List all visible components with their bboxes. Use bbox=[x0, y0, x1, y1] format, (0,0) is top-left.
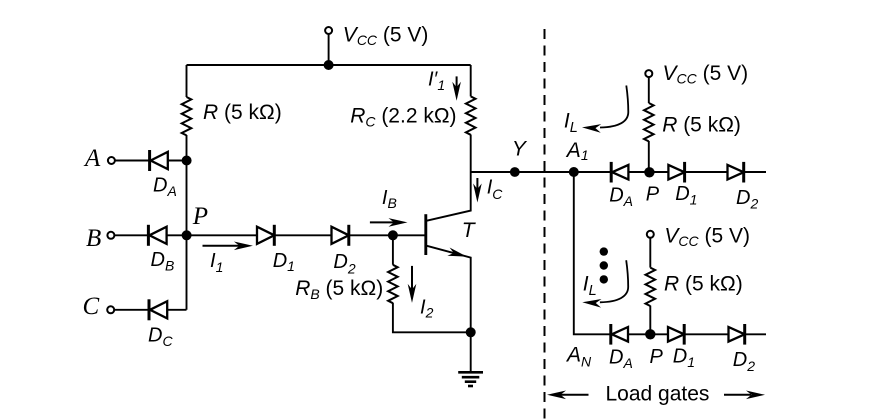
svg-text:D1: D1 bbox=[675, 183, 697, 207]
svg-text:D2: D2 bbox=[333, 251, 355, 277]
svg-text:P: P bbox=[192, 203, 208, 230]
svg-text:A1: A1 bbox=[565, 139, 589, 163]
svg-text:B: B bbox=[86, 225, 101, 252]
svg-text:IC: IC bbox=[487, 177, 504, 203]
svg-text:D2: D2 bbox=[733, 349, 755, 374]
svg-text:VCC (5 V): VCC (5 V) bbox=[664, 225, 750, 250]
svg-text:T: T bbox=[462, 219, 477, 242]
svg-text:A: A bbox=[83, 145, 101, 172]
svg-text:R (5 kΩ): R (5 kΩ) bbox=[662, 113, 741, 136]
svg-text:I1: I1 bbox=[210, 250, 223, 275]
svg-text:C: C bbox=[83, 293, 100, 320]
svg-text:R (5 kΩ): R (5 kΩ) bbox=[203, 101, 282, 124]
svg-text:IL: IL bbox=[564, 109, 578, 136]
svg-text:DA: DA bbox=[609, 347, 633, 371]
svg-text:I′1: I′1 bbox=[428, 69, 445, 94]
svg-text:RB (5 kΩ): RB (5 kΩ) bbox=[295, 277, 383, 302]
svg-text:DB: DB bbox=[151, 249, 175, 273]
svg-text:VCC (5 V): VCC (5 V) bbox=[663, 62, 749, 87]
svg-text:I2: I2 bbox=[420, 297, 434, 321]
svg-text:DA: DA bbox=[153, 175, 177, 199]
svg-text:Y: Y bbox=[512, 138, 528, 161]
svg-text:DA: DA bbox=[609, 185, 633, 209]
svg-text:IL: IL bbox=[583, 272, 597, 299]
svg-text:VCC (5 V): VCC (5 V) bbox=[343, 23, 429, 48]
svg-text:P: P bbox=[650, 346, 664, 368]
svg-text:D1: D1 bbox=[673, 346, 695, 370]
svg-text:D2: D2 bbox=[736, 187, 758, 211]
svg-text:R (5 kΩ): R (5 kΩ) bbox=[664, 272, 743, 295]
svg-text:AN: AN bbox=[565, 344, 592, 370]
svg-text:P: P bbox=[646, 183, 660, 205]
svg-text:RC (2.2 kΩ): RC (2.2 kΩ) bbox=[350, 105, 456, 130]
svg-text:IB: IB bbox=[382, 187, 397, 211]
svg-text:DC: DC bbox=[148, 324, 173, 348]
svg-text:D1: D1 bbox=[273, 250, 295, 274]
svg-text:Load gates: Load gates bbox=[606, 382, 710, 405]
